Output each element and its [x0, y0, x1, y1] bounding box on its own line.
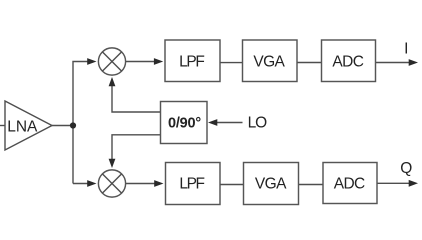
wire: 0/90 upper output to top mixer: [112, 86, 161, 112]
block LPF (top): [165, 40, 220, 82]
wire: bottom mixer to LPF: [125, 183, 156, 185]
svg-text:LNA: LNA: [7, 118, 38, 135]
mixer X (bottom): [102, 174, 121, 193]
arrowhead: up into top mixer from 0/90: [109, 77, 116, 86]
block LPF (bottom): [166, 163, 221, 205]
arrowhead: into bottom mixer from bus: [87, 180, 96, 187]
wire: top ADC to I output: [376, 62, 411, 64]
wire: bus to bottom mixer: [73, 183, 90, 185]
arrowhead: I output: [409, 59, 418, 66]
arrowhead: LO into 0/90 box: [208, 119, 217, 126]
wire: top mixer to LPF: [125, 61, 156, 63]
wire: LNA output to junction: [52, 125, 73, 127]
wire: top LPF to VGA: [220, 62, 243, 64]
wire: vertical bus from junction to both mixers: [73, 62, 90, 184]
wire: bottom ADC to Q output: [377, 182, 410, 184]
wire: 0/90 lower output to bottom mixer: [112, 135, 161, 160]
wire: bottom VGA to ADC: [299, 184, 324, 186]
svg-text:ADC: ADC: [332, 53, 363, 70]
block ADC (bottom): [323, 163, 377, 204]
svg-text:0/90°: 0/90°: [168, 115, 201, 131]
svg-text:VGA: VGA: [255, 175, 287, 192]
svg-text:I: I: [404, 41, 408, 58]
arrowhead: into top mixer from bus: [87, 58, 96, 65]
svg-text:LO: LO: [248, 115, 267, 132]
mixer X (top): [102, 52, 121, 71]
svg-text:VGA: VGA: [253, 53, 285, 70]
block ADC (top): [322, 40, 376, 82]
svg-text:LPF: LPF: [179, 53, 204, 70]
junction node after LNA: [70, 122, 76, 128]
amplifier LNA: [5, 101, 52, 150]
arrowhead: into top LPF: [154, 58, 163, 65]
arrowhead: into bottom LPF: [154, 180, 163, 187]
block 0/90 phase splitter: [161, 102, 208, 144]
mixer (top): [98, 48, 125, 75]
wire: antenna input stub: [0, 125, 5, 127]
arrowhead: Q output: [409, 180, 418, 187]
wire: top VGA to ADC: [297, 62, 322, 64]
svg-text:ADC: ADC: [334, 175, 365, 192]
svg-text:LPF: LPF: [179, 175, 204, 192]
wire: LO input line: [216, 122, 243, 124]
arrowhead: down into bottom mixer from 0/90: [109, 159, 116, 168]
svg-text:Q: Q: [400, 160, 412, 177]
mixer (bottom): [98, 170, 125, 197]
wire: bottom LPF to VGA: [220, 184, 244, 186]
block VGA (bottom): [244, 163, 299, 205]
block VGA (top): [243, 40, 298, 82]
